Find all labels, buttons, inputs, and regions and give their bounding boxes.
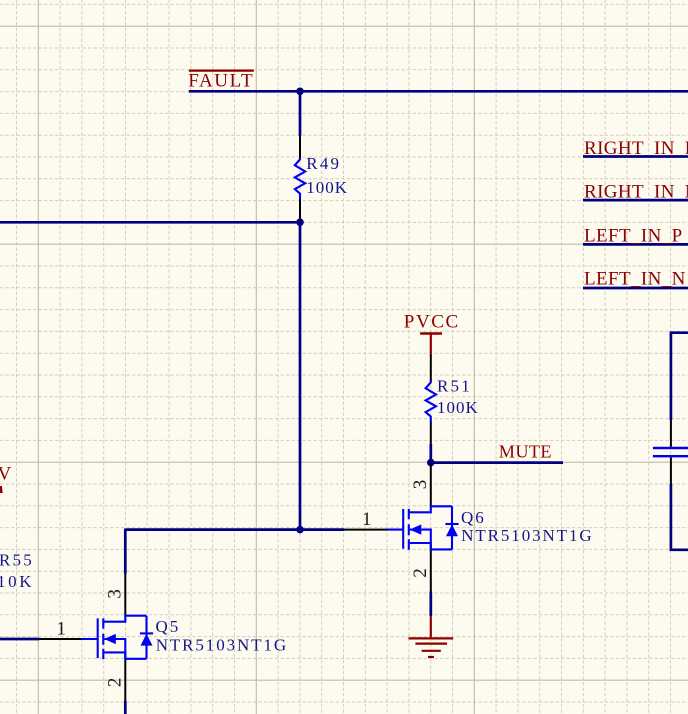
svg-text:100K: 100K — [306, 178, 348, 197]
svg-text:FAULT: FAULT — [188, 70, 254, 91]
wire: FAULT net horizontal run — [189, 90, 688, 93]
R51 zigzag body — [426, 381, 436, 423]
wire: RIGHT_IN_P stub — [583, 155, 688, 158]
Q6 body-diode triangle — [447, 526, 457, 536]
R49 pin 1 (top) — [299, 136, 301, 159]
Q6 channel arrow — [411, 525, 421, 534]
svg-text:R49: R49 — [306, 154, 341, 173]
svg-text:3: 3 — [410, 480, 431, 490]
wire: RIGHT_IN_N stub — [583, 199, 688, 202]
wire: long vertical from junction down to gate net — [299, 218, 302, 529]
Q5 drain pin (pin 3) — [124, 574, 126, 616]
svg-text:R51: R51 — [437, 377, 472, 396]
svg-text:3: 3 — [105, 589, 126, 599]
Q6 source pin (pin 2) — [430, 549, 432, 591]
transistor Q6 (NTR5103NT1G) — [345, 465, 594, 592]
transistor Q5 (NTR5103NT1G) — [39, 574, 288, 701]
wire: LEFT_IN_N stub — [583, 287, 688, 290]
cap pin 1 — [670, 420, 672, 447]
Q6 symbol body — [387, 506, 459, 549]
PVCC stem — [430, 334, 432, 354]
wire: vertical down to Q5 drain — [124, 529, 127, 574]
svg-text:MUTE: MUTE — [499, 442, 552, 462]
power port PVCC — [404, 312, 460, 354]
junction MUTE node — [427, 459, 435, 467]
svg-text:1: 1 — [57, 618, 67, 639]
svg-text:NTR5103NT1G: NTR5103NT1G — [156, 636, 288, 655]
svg-text:R55: R55 — [0, 551, 34, 570]
svg-text:PVCC: PVCC — [404, 312, 460, 333]
junction below R49 — [296, 219, 304, 227]
junction at FAULT / R49 — [296, 88, 304, 96]
wire: Q5 gate net from left edge — [0, 638, 39, 641]
svg-text:1: 1 — [362, 509, 372, 530]
Q6 drain pin (pin 3) — [430, 465, 432, 507]
wire: Q6 source to ground — [429, 592, 432, 617]
R51 pin 1 (top) — [430, 354, 432, 382]
wire: LEFT_IN_P stub — [583, 243, 688, 246]
wire: R51 bottom to junction — [429, 444, 432, 466]
resistor R49 — [295, 136, 348, 218]
R49 pin 2 (bottom) — [299, 199, 301, 218]
wire: horizontal net at left into junction — [0, 221, 300, 224]
cap pin 2 — [670, 457, 672, 484]
PVCC bar — [420, 332, 442, 334]
red underline fragment at left edge — [0, 486, 3, 493]
wire: MUTE stub — [431, 461, 563, 464]
svg-text:Q6: Q6 — [461, 508, 486, 527]
Q5 symbol body — [82, 616, 154, 659]
wire: vertical from FAULT wire down to R49 — [299, 91, 302, 136]
wire: cap bottom to right edge — [671, 484, 688, 550]
Q5 channel arrow — [106, 635, 116, 644]
Q5 body-diode triangle — [141, 635, 151, 645]
svg-text:LEFT_IN_N: LEFT_IN_N — [584, 268, 686, 289]
R49 zigzag body — [295, 158, 305, 200]
svg-text:10K: 10K — [0, 572, 34, 591]
cap plates — [653, 448, 688, 456]
svg-text:100K: 100K — [437, 398, 479, 417]
Q5 source pin (pin 2) — [124, 659, 126, 701]
svg-text:2: 2 — [410, 568, 431, 578]
Q5 gate pin (pin 1) — [39, 638, 82, 640]
ground symbol — [409, 616, 454, 657]
R51 pin 2 (bottom) — [430, 422, 432, 444]
svg-text:V: V — [0, 463, 13, 484]
junction on gate net — [296, 526, 304, 534]
svg-text:2: 2 — [105, 678, 126, 688]
Q6 gate pin (pin 1) — [345, 529, 388, 531]
wire: gate net horizontal (Q5 drain to Q6 gate) — [125, 528, 344, 531]
capacitor at right edge — [653, 333, 688, 550]
svg-text:Q5: Q5 — [156, 617, 181, 636]
svg-text:NTR5103NT1G: NTR5103NT1G — [461, 526, 593, 545]
FAULT overbar — [189, 69, 254, 71]
svg-text:LEFT_IN_P: LEFT_IN_P — [584, 226, 683, 247]
wire: cap top from right edge — [671, 333, 688, 420]
resistor R51 — [426, 354, 479, 444]
wire: Q5 source pin to bottom edge — [124, 701, 127, 714]
